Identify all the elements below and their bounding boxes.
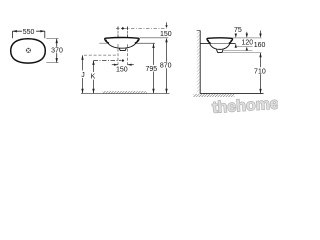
svg-text:75: 75 bbox=[234, 27, 242, 34]
svg-text:J: J bbox=[81, 72, 85, 79]
svg-text:550: 550 bbox=[23, 29, 35, 36]
svg-text:795: 795 bbox=[145, 66, 157, 73]
svg-text:150: 150 bbox=[116, 66, 128, 73]
svg-text:150: 150 bbox=[160, 31, 172, 38]
svg-text:710: 710 bbox=[254, 68, 266, 75]
svg-text:370: 370 bbox=[51, 47, 63, 54]
svg-text:120: 120 bbox=[241, 40, 253, 47]
svg-text:160: 160 bbox=[254, 42, 266, 49]
svg-text:K: K bbox=[91, 73, 96, 80]
svg-text:870: 870 bbox=[160, 63, 172, 70]
